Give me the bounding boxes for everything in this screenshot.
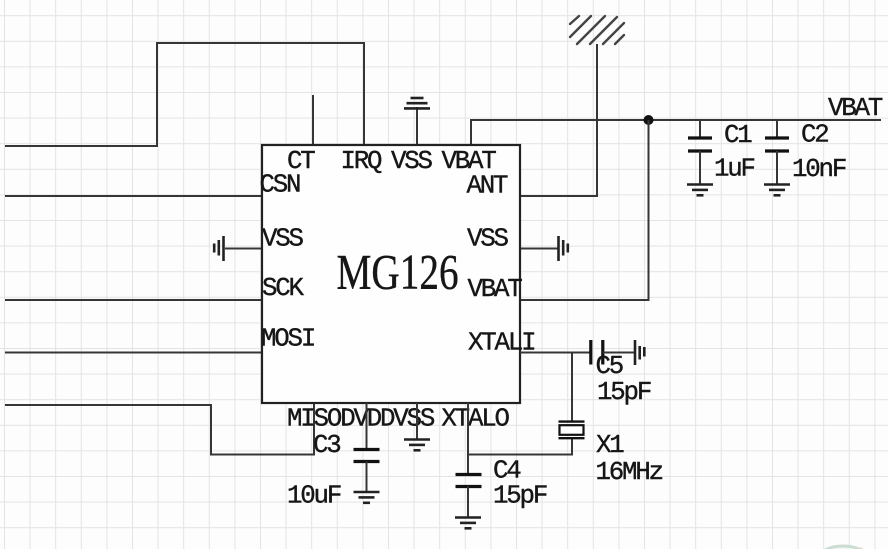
svg-text:MG126: MG126 <box>337 244 459 300</box>
ground at VSS right pin (rotated right) <box>559 236 568 261</box>
wire VSS top pin to ground <box>416 107 418 145</box>
svg-text:C5: C5 <box>596 352 623 381</box>
capacitor C4 <box>456 475 482 487</box>
svg-text:VSS: VSS <box>262 224 304 253</box>
wire VSS left pin stub <box>225 248 262 250</box>
wire C1 top connection <box>699 120 701 138</box>
IC U1 MG126 body <box>262 145 520 403</box>
wire MISO net <box>5 403 314 455</box>
svg-text:C2: C2 <box>801 121 828 150</box>
ground below C4 <box>455 518 481 529</box>
node VBAT junction dot <box>644 115 654 125</box>
wire XTALO net <box>468 403 572 455</box>
wire CSN <box>5 195 262 197</box>
svg-text:X1: X1 <box>596 431 624 460</box>
svg-text:VBAT: VBAT <box>828 94 883 123</box>
ground below C3 <box>354 492 380 503</box>
wire IRQ net from left edge <box>5 43 364 146</box>
wire SCK <box>5 299 262 301</box>
svg-text:SCK: SCK <box>262 274 305 303</box>
svg-text:VSS: VSS <box>393 405 435 434</box>
svg-text:1uF: 1uF <box>714 155 755 184</box>
wire C2 top connection <box>776 120 778 138</box>
svg-text:15pF: 15pF <box>597 378 651 407</box>
wire C5 to ground <box>603 352 634 354</box>
svg-text:C3: C3 <box>313 431 340 460</box>
wire VBAT right pin to VBAT rail <box>520 120 649 300</box>
wire VBAT net (top pin riser and horizontal rail) <box>471 120 881 145</box>
capacitor C2 <box>765 138 789 151</box>
svg-text:MISO: MISO <box>287 405 342 434</box>
ground at VSS top pin (inverted) <box>404 98 430 108</box>
svg-text:15pF: 15pF <box>493 481 547 510</box>
ground at VSS bottom pin <box>404 440 430 451</box>
watermark logo (bottom right) <box>818 546 868 549</box>
ground below C2 <box>764 185 790 196</box>
ground below C1 <box>687 185 713 196</box>
svg-text:CSN: CSN <box>260 171 301 200</box>
antenna (hatched symbol) <box>570 16 624 44</box>
svg-text:10nF: 10nF <box>792 155 846 184</box>
svg-text:DVDD: DVDD <box>340 405 395 434</box>
capacitor C3 <box>354 450 380 462</box>
wire C2 to ground <box>776 151 778 184</box>
svg-text:VSS: VSS <box>391 147 433 176</box>
wire C3 to ground <box>366 462 368 492</box>
svg-text:16MHz: 16MHz <box>596 458 663 487</box>
capacitor C1 <box>688 138 712 151</box>
crystal X1 <box>559 422 585 439</box>
ground at VSS left pin (rotated left) <box>214 236 223 261</box>
svg-text:IRQ: IRQ <box>341 147 383 176</box>
capacitor C5 (horizontal) <box>591 340 603 365</box>
wire MOSI <box>5 352 262 354</box>
svg-text:C1: C1 <box>724 121 752 150</box>
wire CT pin stub <box>312 95 314 145</box>
svg-text:VSS: VSS <box>467 224 509 253</box>
wire VSS bottom pin to ground <box>416 403 418 439</box>
svg-text:ANT: ANT <box>467 172 509 201</box>
wire C1 to ground <box>699 151 701 184</box>
wire VSS right pin stub <box>520 248 558 250</box>
wire DVDD pin to C3 <box>366 403 368 450</box>
svg-text:XTALO: XTALO <box>441 405 509 434</box>
wire XTALO corner to C4 <box>467 455 469 475</box>
svg-text:VBAT: VBAT <box>468 275 523 304</box>
wire XTALI pin to C5 <box>520 352 590 354</box>
wire XTALI branch to crystal <box>571 353 573 422</box>
wire C4 to ground <box>467 487 469 518</box>
svg-text:MOSI: MOSI <box>261 325 314 354</box>
svg-text:10uF: 10uF <box>287 482 341 511</box>
ground at C5 (rotated right) <box>635 340 644 365</box>
wire ANT pin to antenna <box>520 44 597 196</box>
